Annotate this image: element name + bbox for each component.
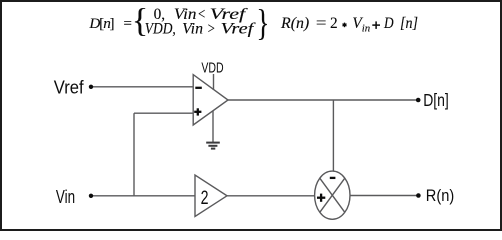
svg-text:D: D bbox=[383, 15, 393, 32]
equation R(n) = 2 * Vin + D[n] bbox=[280, 15, 418, 35]
ground stem wire bbox=[212, 111, 214, 143]
wire plus input horizontal bbox=[134, 112, 193, 114]
svg-text:D[n]: D[n] bbox=[423, 90, 449, 110]
svg-text:VDD,Vin>Vref: VDD,Vin>Vref bbox=[145, 20, 257, 37]
wire summer output to R(n) bbox=[350, 195, 418, 197]
comparator plus input sign bbox=[194, 111, 201, 113]
svg-text:Vin: Vin bbox=[56, 187, 75, 207]
svg-text:R(n): R(n) bbox=[426, 186, 454, 205]
summer plus sign bbox=[317, 197, 325, 199]
svg-text:D[n]=: D[n]= bbox=[88, 15, 132, 32]
svg-text:VDD: VDD bbox=[201, 61, 223, 77]
summer diagonal cross line 1 bbox=[320, 178, 345, 212]
comparator minus input sign bbox=[194, 88, 335, 202]
svg-text:2: 2 bbox=[201, 187, 209, 209]
svg-text:}: } bbox=[257, 3, 270, 44]
summer diagonal cross line 2 bbox=[320, 178, 345, 212]
terminal dot Vref bbox=[89, 85, 93, 89]
wire Vin to amplifier bbox=[91, 195, 195, 197]
terminal dot R(n) bbox=[416, 193, 421, 198]
equation D[n] cases bbox=[88, 2, 269, 43]
wire plus input vertical drop to Vin line bbox=[133, 113, 135, 196]
wire branch down to summer bbox=[332, 100, 334, 171]
wire amplifier output to summer bbox=[227, 195, 315, 197]
summer S1 ellipse bbox=[315, 171, 350, 219]
comparator U1 triangle bbox=[193, 75, 228, 125]
svg-text:[n]: [n] bbox=[400, 15, 418, 32]
wire Vref to comparator minus input bbox=[91, 86, 193, 88]
ground symbol bars bbox=[206, 143, 220, 149]
terminal dot Vin bbox=[89, 194, 93, 198]
wire comparator output to D[n] bbox=[228, 99, 418, 101]
summer minus sign bbox=[330, 177, 336, 179]
VDD stem wire bbox=[213, 74, 215, 90]
amplifier A1 gain-2 triangle bbox=[195, 175, 227, 217]
terminal dot D[n] bbox=[416, 98, 421, 103]
svg-text:Vref: Vref bbox=[54, 78, 85, 98]
asterisk operator bbox=[343, 23, 347, 28]
